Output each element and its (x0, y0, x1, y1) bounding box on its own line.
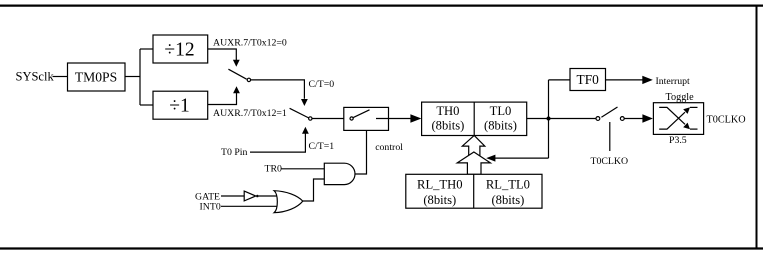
svg-text:÷1: ÷1 (169, 96, 189, 117)
wire reload feedback (495, 157, 549, 159)
arrow Interrupt (642, 76, 653, 84)
block divider ÷12 (153, 35, 208, 63)
switch T0CLKO left contact (596, 117, 600, 121)
hollow arrow upper (462, 135, 485, 156)
or-gate U2 (274, 191, 303, 213)
svg-text:T0 Pin: T0 Pin (221, 147, 248, 158)
switch AUXR clock select wiper (228, 69, 246, 79)
block TF0 (570, 69, 606, 91)
wire GATE to inverter (221, 195, 244, 197)
wire TM0PS to branch (125, 76, 140, 78)
switch C/T pole contact (309, 117, 312, 120)
junction node (547, 117, 551, 121)
hollow arrow lower (457, 152, 490, 174)
block control (gate switch) (344, 107, 389, 130)
and-gate U1 (324, 163, 355, 184)
arrow into toggle box (642, 114, 653, 122)
wire div12 to switch contact (down arrow) (208, 49, 240, 67)
svg-text:(8bits): (8bits) (484, 118, 517, 132)
block TM0PS (68, 63, 126, 91)
wire control box to AND gate output (355, 130, 367, 174)
svg-text:P3.5: P3.5 (669, 135, 687, 146)
wire junction vertical (548, 80, 550, 158)
wire control output to TH0 (376, 118, 411, 120)
wire TR0 to AND gate (282, 168, 325, 170)
arrow C/T=0 contact (down) (301, 99, 308, 106)
wire T0CLKO stub down (609, 122, 611, 151)
block TH0/TL0 (422, 102, 527, 135)
switch inside control: contact (350, 117, 353, 120)
wire TL0 output (527, 118, 596, 120)
wire branch to div12 (140, 48, 153, 50)
switch T0CLKO wiper (601, 107, 617, 117)
arrow reload into shaft (left) (486, 155, 495, 162)
svg-text:AUXR.7/T0x12=0: AUXR.7/T0x12=0 (213, 38, 287, 49)
svg-text:RL_TH0: RL_TH0 (417, 178, 462, 192)
switch inside control: wiper (353, 110, 369, 118)
wire branch vertical (139, 49, 141, 105)
svg-text:Toggle: Toggle (666, 92, 695, 103)
svg-text:T0CLKO: T0CLKO (707, 115, 746, 126)
svg-text:TM0PS: TM0PS (75, 70, 117, 85)
wire OR output to AND input (303, 179, 325, 201)
svg-text:INT0: INT0 (200, 202, 221, 213)
wire INT0 to OR gate (221, 205, 277, 207)
svg-text:TR0: TR0 (265, 164, 283, 175)
svg-text:(8bits): (8bits) (423, 193, 456, 207)
svg-text:÷12: ÷12 (164, 40, 194, 61)
svg-text:TF0: TF0 (577, 72, 600, 87)
svg-text:control: control (375, 142, 403, 153)
block RL_TH0/RL_TL0 (406, 174, 542, 208)
svg-text:TH0: TH0 (436, 104, 459, 118)
svg-text:T0CLKO: T0CLKO (591, 156, 629, 167)
frame top border (0, 4, 763, 6)
switch AUXR pole contact (247, 78, 250, 81)
inverter output dot (256, 195, 259, 198)
wire inverter to OR gate (259, 195, 278, 197)
svg-text:SYSclk: SYSclk (16, 70, 55, 84)
wire branch to div1 (140, 104, 153, 106)
wire to TF0 (549, 79, 571, 81)
inverter buffer triangle (244, 191, 256, 201)
wire TF0 to Interrupt (606, 79, 644, 81)
wire switch to toggle box (624, 118, 643, 120)
arrow C/T=1 contact (up) (302, 127, 309, 134)
wire T0 Pin to C/T=1 contact (250, 134, 305, 153)
svg-text:C/T=0: C/T=0 (309, 79, 335, 90)
block divider ÷1 (153, 91, 208, 119)
frame bottom border (0, 247, 763, 249)
svg-text:(8bits): (8bits) (431, 118, 464, 132)
toggle cross line down (659, 107, 697, 129)
wire SYSclk to TM0PS (53, 76, 68, 78)
switch C/T select wiper (290, 108, 309, 118)
wire AUXR pole to C/T=0 contact (251, 80, 305, 99)
svg-text:(8bits): (8bits) (491, 193, 524, 207)
switch T0CLKO right contact (620, 117, 624, 121)
svg-text:RL_TL0: RL_TL0 (486, 178, 530, 192)
wire C/T pole to control box (312, 118, 344, 120)
frame right border (756, 6, 758, 249)
block toggle P3.5 (653, 103, 703, 135)
arrow into TH0 (410, 114, 421, 123)
wire div1 to switch contact (up arrow) (208, 86, 240, 104)
svg-text:Interrupt: Interrupt (656, 76, 691, 87)
svg-text:C/T=1: C/T=1 (309, 141, 335, 152)
svg-text:AUXR.7/T0x12=1: AUXR.7/T0x12=1 (213, 108, 287, 119)
svg-text:TL0: TL0 (490, 104, 512, 118)
toggle cross line up (659, 107, 697, 129)
